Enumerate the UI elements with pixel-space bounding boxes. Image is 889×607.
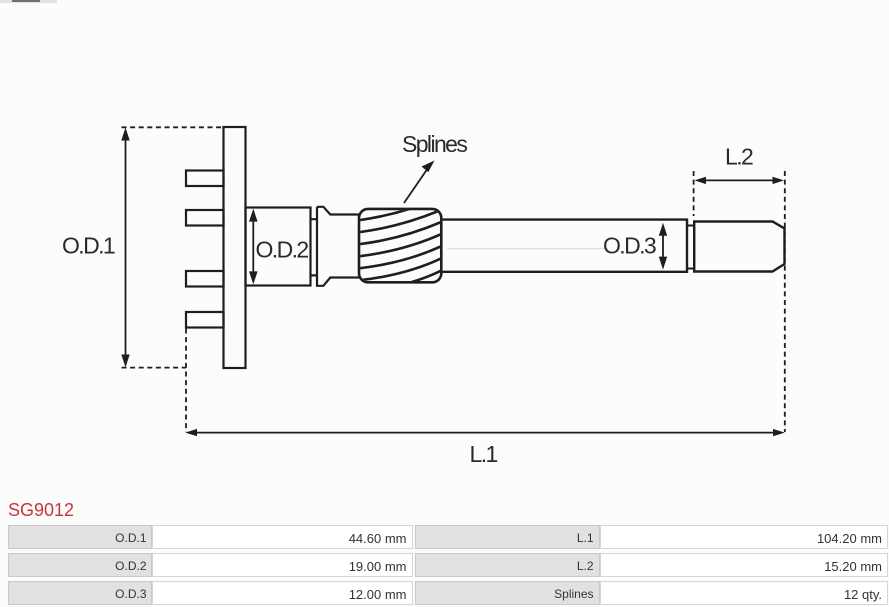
neck <box>311 219 318 275</box>
spec table row 3 <box>8 581 152 605</box>
spec table row 2 <box>8 553 152 577</box>
part number SG9012 <box>8 500 74 521</box>
dimension O.D.1 extension line top (dashed) <box>122 126 224 128</box>
dimension O.D.1 extension line bottom (dashed) <box>122 367 187 369</box>
prong 1 <box>186 171 224 187</box>
extension line left L.1 (dashed) <box>185 329 187 433</box>
svg-text:O.D.2: O.D.2 <box>256 237 309 263</box>
dimension O.D.2 arrow <box>249 209 258 285</box>
dimension L.2 arrow <box>695 177 785 184</box>
step ring <box>687 226 694 269</box>
svg-text:L.2: L.2 <box>725 144 753 170</box>
extension line right (dashed) <box>784 171 786 432</box>
shaft <box>441 220 687 272</box>
svg-text:O.D.3: O.D.3 <box>603 233 656 259</box>
svg-text:O.D.1: O.D.1 <box>62 233 115 259</box>
svg-text:Splines: Splines <box>402 131 467 157</box>
prong 4 <box>186 312 224 328</box>
flange disk <box>224 127 246 368</box>
collar O.D.2 cylinder <box>246 208 311 286</box>
spec table row 1 <box>8 525 152 549</box>
shaft centerline <box>447 248 608 250</box>
svg-text:L.1: L.1 <box>470 441 498 467</box>
prong 3 <box>186 271 224 287</box>
stop collar <box>317 207 360 286</box>
top-left cropped watermark <box>0 0 57 3</box>
spline section <box>352 195 448 305</box>
dimension O.D.3 arrow <box>659 223 667 270</box>
end journal <box>694 222 784 272</box>
splines pointer arrow <box>404 161 435 204</box>
dimension L.1 arrow <box>185 429 785 436</box>
prong 2 <box>186 210 224 226</box>
dimension O.D.1 arrow <box>121 128 129 368</box>
extension line L.2 left (dashed) <box>693 171 695 216</box>
